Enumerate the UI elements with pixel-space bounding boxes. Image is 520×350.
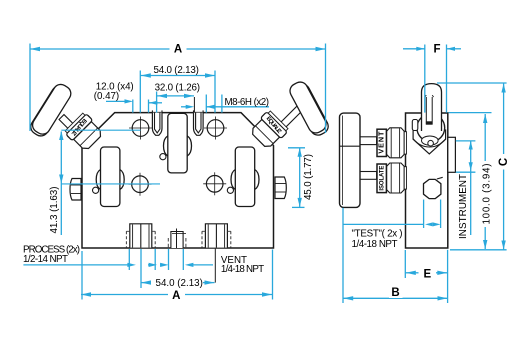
M8 leader underline — [206, 106, 269, 108]
left face valve (front) — [93, 147, 125, 207]
svg-text:32.0 (1.26): 32.0 (1.26) — [155, 83, 200, 94]
dim 54 bottom — [141, 282, 151, 284]
A bottom arrows — [81, 292, 91, 296]
svg-text:M8-6H (x2): M8-6H (x2) — [225, 97, 270, 108]
svg-text:B: B — [391, 287, 399, 299]
stem left — [59, 115, 81, 137]
test leader — [343, 223, 424, 225]
svg-text:45.0 (1.77): 45.0 (1.77) — [303, 154, 314, 200]
manifold body side view — [406, 113, 448, 248]
side hex plug right — [275, 177, 286, 199]
packing hex nut lower V — [413, 130, 446, 154]
hex plug on side face — [424, 177, 443, 198]
stem dome ellipse — [422, 136, 439, 145]
dim A bottom — [81, 294, 272, 296]
handle knob right — [290, 82, 331, 138]
instrument boss dim arrows — [469, 141, 473, 150]
dim C line — [503, 84, 505, 155]
svg-text:E: E — [423, 268, 431, 280]
svg-text:54.0 (2.13): 54.0 (2.13) — [153, 65, 199, 76]
arrowheads — [30, 47, 506, 301]
label A bottom — [168, 288, 185, 302]
mounting hole bottom-right — [203, 172, 226, 195]
inner stem slot — [426, 97, 432, 125]
svg-text:1/2-14 NPT: 1/2-14 NPT — [23, 254, 68, 265]
dim 45 line — [299, 148, 301, 207]
100 arrows — [483, 114, 487, 123]
svg-text:F: F — [433, 44, 440, 56]
circle row line left — [61, 129, 140, 131]
svg-text:INSTRUMENT: INSTRUMENT — [458, 174, 469, 239]
32 arrows — [157, 94, 167, 98]
B arrows — [343, 296, 353, 300]
svg-text:VENT: VENT — [377, 131, 386, 154]
svg-text:A: A — [174, 44, 182, 56]
side handle (tall) — [340, 113, 361, 207]
vent port center (bottom) — [168, 229, 186, 249]
hex bonnet left — [64, 112, 105, 153]
45 arrows — [298, 148, 302, 157]
process leader — [23, 264, 128, 266]
right face valve (front) — [227, 147, 259, 207]
isolate valve side: hex bonnet — [387, 163, 407, 193]
dim F — [403, 48, 425, 50]
M8 stud hole right — [194, 110, 204, 135]
vent tag — [377, 129, 387, 156]
svg-text:41.3 (1.63): 41.3 (1.63) — [49, 187, 60, 234]
test dim arrows — [425, 222, 433, 226]
label A top — [170, 42, 187, 56]
label B — [389, 286, 403, 299]
svg-text:1/4-18 NPT: 1/4-18 NPT — [221, 264, 264, 275]
dim A top ext lines — [29, 44, 31, 132]
center valve (front) — [160, 113, 192, 172]
stem right — [280, 106, 302, 128]
process port right (bottom) — [202, 224, 231, 248]
vent valve side: stem — [360, 137, 377, 145]
mounting hole bottom-left — [129, 173, 152, 196]
label F — [430, 43, 445, 56]
dim E — [404, 250, 406, 278]
dim A top line — [30, 48, 326, 50]
hex bonnet right — [248, 110, 289, 151]
handle knob left — [28, 83, 72, 138]
svg-text:C: C — [498, 158, 510, 166]
isolate valve side: stem — [360, 172, 377, 180]
svg-text:1/4-18 NPT: 1/4-18 NPT — [352, 239, 398, 250]
dim 54 top line — [141, 75, 216, 77]
M8 stud hole left — [152, 110, 162, 135]
process leader arrow — [127, 263, 135, 267]
svg-text:A: A — [172, 290, 180, 302]
mounting hole top-left — [129, 117, 152, 140]
instrument leader — [470, 141, 472, 235]
C arrows — [501, 84, 505, 93]
vent label leader — [214, 249, 216, 283]
stem cylinder top — [422, 84, 442, 131]
side hex plug left — [70, 179, 81, 201]
dim B — [342, 208, 344, 303]
dim 32 top line — [157, 95, 194, 97]
process port left (bottom) — [126, 224, 155, 248]
instrument boss — [448, 137, 456, 172]
A top arrows — [30, 47, 40, 51]
equalize valve right (angled) — [248, 79, 330, 150]
manifold body front view — [82, 113, 274, 248]
side ports center line left — [61, 183, 160, 185]
vent valve side: hex bonnet — [387, 128, 407, 158]
41.3 arrows — [59, 131, 63, 140]
bottom port ext lines — [128, 249, 130, 270]
side top ext lines — [437, 82, 507, 84]
dim 12 leaders — [106, 100, 125, 102]
packing nut tab — [412, 120, 418, 131]
packing nut top circle — [417, 114, 445, 142]
svg-text:(0.47): (0.47) — [94, 91, 120, 102]
F arrows — [416, 47, 425, 51]
equalize valve left (angled) — [28, 82, 105, 153]
label E — [421, 267, 435, 281]
svg-text:ISOLATE: ISOLATE — [380, 166, 386, 191]
M8 stud leader — [193, 97, 195, 113]
dim 41.3 line — [60, 132, 62, 236]
test ext lines — [423, 200, 425, 229]
isolate tag — [377, 164, 386, 193]
E arrows — [406, 271, 416, 275]
mounting hole top-right — [204, 117, 227, 140]
svg-text:"TEST"( 2x ): "TEST"( 2x ) — [352, 228, 403, 239]
12 leader arrows — [125, 99, 134, 103]
dim 100 line — [484, 114, 486, 161]
54 top arrows — [141, 73, 151, 77]
54 bottom arrows — [141, 280, 151, 284]
svg-text:100.0 (3.94): 100.0 (3.94) — [482, 164, 493, 225]
svg-text:54.0 (2.13): 54.0 (2.13) — [156, 278, 203, 289]
